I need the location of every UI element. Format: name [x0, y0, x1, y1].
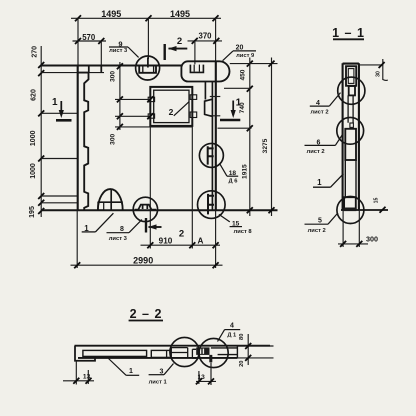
svg-text:300: 300	[110, 133, 117, 144]
svg-text:910: 910	[159, 236, 173, 245]
left dimension chain line	[38, 46, 44, 217]
detail circle A	[170, 337, 199, 366]
square opening outer	[150, 87, 192, 126]
svg-text:лист 8: лист 8	[234, 229, 253, 235]
section mark 2 bottom	[146, 218, 184, 240]
label 1 leader	[109, 359, 140, 376]
extension line y151	[41, 158, 78, 160]
detail circle 15	[198, 191, 226, 219]
top notch	[89, 66, 102, 73]
embed plate F upper	[208, 146, 214, 164]
svg-text:1915: 1915	[242, 164, 249, 179]
svg-text:3275: 3275	[262, 138, 269, 153]
square edge marks left	[148, 97, 154, 101]
svg-text:1 – 1: 1 – 1	[332, 26, 365, 40]
section 1-1 top edge	[343, 63, 359, 65]
svg-text:80: 80	[239, 334, 245, 340]
tie line y126.9	[115, 126, 192, 128]
svg-text:1000: 1000	[30, 163, 37, 179]
detail circle middle	[337, 117, 364, 144]
svg-text:лист 2: лист 2	[310, 110, 328, 116]
section 1-1 bottom edge	[341, 209, 388, 211]
svg-text:1: 1	[52, 97, 58, 108]
extension line mid top	[147, 18, 149, 59]
section mark 1 left	[52, 97, 71, 120]
extension line y63.6 right	[230, 63, 278, 65]
svg-text:лист 9: лист 9	[236, 53, 255, 59]
svg-text:20: 20	[236, 44, 244, 51]
dimension 2990	[71, 256, 223, 269]
extension line 370 left	[194, 41, 196, 64]
svg-text:450: 450	[240, 69, 247, 80]
svg-text:300: 300	[109, 71, 116, 82]
top slot	[346, 66, 356, 86]
label 2 in opening	[169, 102, 190, 117]
extension left edge down	[76, 210, 78, 268]
svg-text:570: 570	[82, 33, 96, 42]
mini dim 15 right	[373, 198, 385, 213]
label 1 leader bottom-left	[82, 213, 114, 233]
svg-text:1000: 1000	[30, 130, 37, 146]
channel below stadium	[205, 82, 213, 211]
svg-text:370: 370	[198, 32, 212, 41]
svg-text:Д 6: Д 6	[229, 178, 239, 184]
svg-text:2: 2	[177, 36, 182, 47]
tie line y116.3	[115, 113, 153, 119]
right dimension chain 450-740-1915	[247, 58, 253, 217]
svg-text:лист 3: лист 3	[109, 48, 128, 54]
arch recess bottom-left	[98, 189, 123, 210]
svg-text:620: 620	[31, 89, 38, 101]
label 6 лист 2	[305, 135, 343, 155]
section mark 2 top	[165, 36, 188, 60]
middle slot box	[345, 129, 356, 160]
label 18 Д6	[219, 163, 238, 184]
dimension chain 300 left of opening	[117, 62, 123, 130]
label 3 лист 1	[149, 364, 174, 386]
section 1-1 right wall	[358, 63, 360, 211]
svg-text:2 – 2: 2 – 2	[130, 307, 163, 321]
panel left edge	[77, 66, 79, 211]
extension from opening left down	[149, 126, 151, 249]
corner slot stadium top-right	[181, 61, 229, 81]
joint notch	[350, 123, 354, 127]
bottom slot	[344, 197, 356, 209]
svg-text:Д 1: Д 1	[227, 332, 237, 338]
svg-text:2990: 2990	[133, 256, 153, 266]
lifting slot recess top-mid	[139, 57, 156, 73]
svg-text:8: 8	[120, 226, 124, 233]
section mark 1 right	[220, 98, 242, 121]
svg-text:лист 3: лист 3	[109, 236, 128, 242]
svg-text:13: 13	[198, 374, 206, 381]
dimension 13 left	[63, 361, 94, 385]
right edge dash marks	[210, 96, 221, 98]
extension right edge down	[215, 210, 217, 268]
title 2-2	[129, 307, 163, 321]
extension from opening right down	[191, 126, 193, 249]
inner wall pair lower	[345, 160, 356, 197]
square opening inner	[154, 90, 189, 122]
svg-text:30: 30	[375, 71, 381, 77]
dimension 370	[188, 32, 223, 44]
dimension 910 and A	[141, 236, 221, 248]
svg-text:1495: 1495	[101, 9, 121, 19]
svg-text:4: 4	[230, 322, 234, 329]
vertical dim 80-20	[245, 334, 251, 365]
label 15 лист 8	[219, 214, 253, 235]
detail circle 8	[133, 197, 157, 221]
svg-text:A: A	[197, 236, 203, 245]
detail circle bottom	[337, 197, 364, 224]
svg-text:2: 2	[179, 229, 184, 240]
stacked plates under circle A	[171, 348, 187, 358]
detail circle 9	[136, 56, 160, 80]
detail circle top	[338, 77, 365, 104]
extension line y75.5	[41, 72, 104, 74]
detail circle 18	[199, 143, 223, 167]
label 5 лист 2	[305, 213, 338, 234]
right end piece	[211, 346, 238, 358]
left edge inner profile	[78, 73, 89, 210]
extension line y358 right	[237, 357, 273, 359]
extension line right top	[215, 18, 217, 61]
tie line y99.4	[115, 96, 153, 102]
anchor hat profile in circle 8	[135, 205, 156, 210]
label 20 лист 9	[223, 44, 256, 60]
dimension line 1495+1495 top	[71, 9, 221, 21]
section 1-1 left wall	[342, 63, 344, 211]
svg-text:1495: 1495	[170, 9, 190, 19]
svg-text:20: 20	[239, 360, 245, 366]
extension line y195	[41, 195, 78, 197]
dimension line 3275	[269, 58, 275, 217]
svg-text:270: 270	[31, 46, 38, 58]
label 1 leader section	[313, 174, 343, 187]
slab left end	[75, 346, 95, 361]
svg-text:740: 740	[239, 102, 246, 113]
svg-text:2: 2	[169, 107, 174, 117]
svg-text:1: 1	[317, 178, 322, 187]
title 1-1	[332, 26, 365, 40]
svg-text:5: 5	[318, 217, 322, 224]
dimension 300 bottom	[338, 211, 378, 247]
square edge marks right	[190, 95, 197, 100]
detail circle B	[199, 338, 228, 367]
panel bottom edge	[41, 209, 277, 211]
extension line y346 right	[237, 345, 273, 347]
extension line y87.8	[224, 87, 252, 89]
inner wall pair upper	[348, 95, 353, 122]
panel top edge	[41, 65, 182, 67]
lifting slot recess in stadium	[190, 65, 203, 73]
label 4 лист 2	[310, 93, 341, 116]
label 8 лист 3	[107, 220, 142, 242]
top right mini dim 30	[359, 59, 388, 80]
panel right edge	[215, 61, 217, 210]
core void 1	[83, 350, 147, 356]
svg-text:300: 300	[366, 235, 378, 244]
dimension 13 right	[196, 363, 216, 385]
svg-text:15: 15	[373, 198, 379, 204]
slab top line	[75, 345, 271, 347]
extension line 570 right	[100, 41, 102, 65]
svg-text:лист 1: лист 1	[149, 379, 168, 385]
slab bottom line	[78, 357, 237, 359]
label 4 Д1	[218, 322, 241, 341]
svg-text:13: 13	[83, 373, 91, 380]
pin below joint	[209, 355, 212, 362]
embed plate F lower	[208, 194, 214, 215]
extension line y113	[41, 112, 78, 114]
dimension 570	[73, 33, 107, 44]
joint cluster	[192, 349, 196, 358]
svg-text:195: 195	[29, 206, 36, 218]
extension line y128.2	[218, 127, 252, 129]
extension line left top corner	[77, 18, 79, 65]
label 9 лист 3	[109, 40, 139, 58]
core void 2	[151, 350, 170, 357]
svg-text:лист 2: лист 2	[307, 149, 325, 155]
top slot lower box	[349, 86, 355, 95]
svg-text:лист 2: лист 2	[308, 228, 326, 234]
svg-text:1: 1	[129, 368, 133, 375]
